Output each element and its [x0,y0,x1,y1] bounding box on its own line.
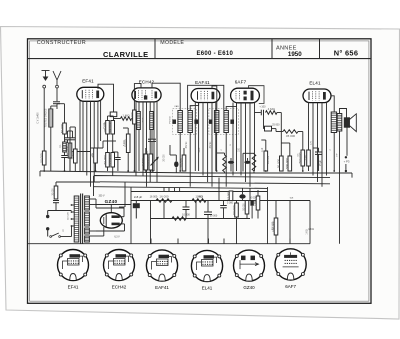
resistor 50000 [103,153,109,168]
wire [69,158,71,172]
wire EF41 pin to ground bus [82,101,84,172]
svg-text:170: 170 [304,155,308,160]
wire stub [289,239,291,244]
capacitor decoupling [115,158,121,160]
resistor 20000 osc [146,154,152,170]
wire [127,128,129,134]
wire antenna coil to ground bus [50,127,52,171]
wire ECH42 grid top cap [134,84,141,110]
capacitor cathode bypass [315,152,322,154]
mains plug pin 2 [46,227,49,236]
svg-text:1 MΩ: 1 MΩ [197,195,203,198]
speaker [344,114,356,132]
wire EF41 pin heater [93,101,95,182]
wire [276,131,283,133]
trimmer arrow oscillator [151,157,159,166]
svg-text:25 µF: 25 µF [320,159,322,166]
wire [257,190,259,196]
wire [96,147,104,149]
wire OT primary return [333,133,335,172]
header bottom rule [28,58,372,60]
wire EL41 pin [321,103,323,187]
svg-text:CONSTRUCTEUR: CONSTRUCTEUR [37,40,86,46]
capacitor IFT1 trimmer left [172,120,176,124]
wire IFT1 secondary return [189,133,191,187]
tube ECH42 internal electrodes [136,90,158,99]
resistor 100000 avc [264,151,268,171]
resistor 50000 det [277,156,283,171]
wire heater bus 1 [94,176,331,197]
wire ECH42 pin heater [142,102,144,176]
wire heater stub 4 [179,188,181,192]
tube EAF41 internal electrodes [198,91,215,100]
wire [218,178,220,201]
wire EL41 pin extra [326,102,328,175]
wire [96,207,124,209]
capacitor 50000 [204,212,212,215]
svg-text:472 kc: 472 kc [210,141,212,149]
svg-text:CLARVILLE: CLARVILLE [103,50,149,59]
wire EL41 pin grid [308,102,310,150]
wire [223,201,225,206]
svg-text:47 000: 47 000 [226,191,230,201]
wire [133,124,135,171]
wire [298,131,303,133]
wire tap [72,218,75,220]
wire [123,127,128,129]
wire heater to rectifier area [124,182,126,207]
wire [236,201,238,204]
wire elbow [243,152,254,154]
wire secondary tap [90,198,96,200]
wire GZ40 cathode [110,205,112,213]
wire [230,158,232,161]
junction ground bus [127,170,129,172]
tube EAF41 envelope [191,89,220,103]
wire [183,148,185,155]
wire [112,134,114,141]
wire EF41 pin [90,101,92,186]
capacitor oscillator padder [148,139,156,141]
svg-text:1 KΩ: 1 KΩ [255,200,257,205]
tube EF41 internal electrodes [82,90,99,99]
wire 6AF7 pin [236,103,238,171]
header separator constructeur/modele [154,39,156,59]
svg-text:50 000: 50 000 [244,203,246,211]
svg-text:EL41: EL41 [309,80,321,85]
junction test point [345,156,347,158]
svg-text:EAF41: EAF41 [195,80,210,85]
wire bottom chassis line [28,243,310,245]
wire [107,116,109,121]
capacitor padding 2 [70,138,76,140]
wire [107,141,109,153]
svg-text:300 000: 300 000 [108,122,112,133]
wire tap [72,204,75,206]
svg-text:16 000: 16 000 [150,196,158,199]
wire ECH42 pin extra [156,101,158,182]
svg-text:1 KΩ: 1 KΩ [306,229,308,234]
svg-text:4 MΩ: 4 MΩ [268,107,276,111]
svg-text:350 V: 350 V [98,196,104,198]
wire HT rail left [96,204,131,206]
junction ground bus [179,170,181,172]
coil IFT2 secondary [224,111,229,133]
capacitor detector [261,110,263,116]
wire [242,188,244,194]
wire bus end hook [351,173,353,178]
wire [64,104,66,123]
wire 6AF7 return [254,113,256,172]
coil IFT1 primary [178,111,183,133]
wire ECH42 pin extra [135,102,137,176]
resistor 500000 grid EL41 [298,150,304,166]
wire [170,154,176,156]
capacitor IFT2 trimmer left [209,120,213,124]
wire [64,152,66,156]
wire [124,224,126,231]
wire [64,134,66,142]
junction ground bus [333,170,335,172]
coil IFT2 primary [214,111,219,133]
wire to tuning section [57,103,65,105]
IF transformer 2 enclosure [209,109,238,135]
svg-text:50 000: 50 000 [232,205,236,215]
wire GZ40 filament [103,227,105,236]
wire switch to primary [61,236,72,238]
wire secondary tap [90,235,96,237]
wire elbow [217,152,225,154]
coil transformer secondary HT [85,196,90,210]
coil oscillator grid [137,112,141,130]
wire [309,201,311,226]
resistor 100000 [103,121,109,135]
wire elbow [90,147,103,149]
wire [313,147,319,149]
wire [145,170,147,173]
wire OT to PSU [339,131,341,244]
tube socket base diagram EF41 [58,250,89,281]
wire [207,201,209,213]
wire EF41 pin to cathode resistor [97,101,99,149]
resistor 300 cathode [91,148,97,163]
svg-text:E600 - E610: E600 - E610 [196,51,233,57]
resistor 4 Mohm [266,107,278,114]
tube socket base diagram ECH42 [104,250,135,281]
tube socket base diagram GZ40 [234,250,265,281]
svg-text:6AF7: 6AF7 [285,284,296,289]
coil output transformer secondary [337,114,342,132]
tube GZ40 internal anodes [104,215,120,227]
wire output rail down [289,201,291,244]
tube socket base diagram EL41 [191,250,222,281]
wire 6AF7 pin [249,103,251,187]
svg-text:C.V. 2x490: C.V. 2x490 [38,112,40,124]
capacitor padding 1 [65,138,71,140]
wire [96,230,125,232]
wire [224,172,226,173]
capacitor mains [53,201,59,203]
header separator modele/annee [271,39,273,59]
wire [67,131,69,138]
resistor 1K vertical zigzag [252,154,256,171]
wire [114,118,121,120]
resistor tone [172,217,186,221]
resistor 1 Mohm AVC [121,114,132,121]
wire junction bar [103,140,116,142]
wire [275,129,277,132]
wire [253,152,255,155]
wire EAF41 shield [188,85,224,110]
wire ECH42 pin [149,102,151,182]
wire [263,113,265,129]
wire [113,151,118,153]
junction ground bus [216,170,218,172]
wire [150,201,152,244]
wire [108,115,114,117]
wire [277,112,281,114]
svg-text:16 000: 16 000 [159,195,169,199]
coil secondary winding [63,142,67,152]
coil oscillator plate [150,112,154,130]
wire [257,210,259,219]
wire [74,127,76,149]
wire [55,182,57,186]
wire [185,201,187,208]
wire [132,118,135,120]
junction ground bus [43,170,45,172]
wire heater link left [56,181,100,183]
svg-text:50 000: 50 000 [210,215,218,218]
wire 6AF7 pin [245,103,247,182]
wire 6AF7 pin heater [240,103,242,176]
svg-text:50 000: 50 000 [277,159,281,169]
resistor 300000 [108,121,114,135]
wire [150,170,152,173]
resistor 500000 [285,156,291,171]
resistor 47000 [226,191,232,201]
wire [56,104,58,109]
transformer core [81,194,83,245]
wire [281,142,290,144]
wire [236,217,238,244]
schematic border frame inner [30,41,369,301]
wire mains feed [48,210,72,212]
capacitor 100 coupling box [110,112,117,117]
wire main ground bus [40,171,352,173]
wire heater bus 2 [100,182,330,184]
svg-text:+ P3: + P3 [344,160,350,164]
wire [107,134,109,141]
svg-text:EF41: EF41 [82,79,94,84]
coil output transformer primary [331,112,336,133]
wire GZ40 anode 1 [120,216,124,218]
wire 6AF7 grid feed [254,102,256,112]
resistor 40000 [65,143,71,158]
svg-text:2 000: 2 000 [71,152,75,160]
svg-text:N° 656: N° 656 [334,48,358,57]
wire [275,235,277,244]
junction ground bus [302,170,304,172]
svg-text:+ 100: + 100 [259,106,266,109]
capacitor IFT2 trimmer right [230,120,234,124]
wire [230,164,232,172]
wire [117,152,119,158]
svg-text:CAD: CAD [174,105,179,108]
svg-text:1 KΩ: 1 KΩ [308,228,314,231]
wire EF41 pin extra [100,101,102,141]
svg-text:20 000: 20 000 [146,157,150,167]
wire IFT2 secondary return [225,133,227,187]
svg-text:50 000: 50 000 [40,153,44,163]
resistor 50000 volume [40,151,46,165]
svg-text:6AF7: 6AF7 [235,80,247,85]
capacitor trimmer oscillator [174,161,178,167]
wire [318,148,320,152]
capacitor antenna series [53,102,60,104]
resistor 50000 screen [232,203,238,217]
wire [74,163,76,171]
wire [102,141,104,148]
wire [55,203,57,211]
svg-text:1950: 1950 [288,51,302,58]
svg-text:AVC: AVC [198,147,201,152]
resistor 25000 [108,153,114,168]
capacitor to ground [61,156,68,158]
coil IFT1 secondary [188,111,193,133]
capacitor electrolytic cathode [239,194,245,198]
wire [127,153,129,172]
wire [247,158,249,161]
tube 6AF7 internal electrodes [236,91,254,101]
wire [175,167,177,173]
svg-text:EF41: EF41 [68,285,79,290]
wire [264,128,265,130]
capacitor screen [250,201,253,206]
junction primary tap 1 [71,204,73,206]
tube EF41 envelope [77,87,104,101]
wire [112,141,114,153]
resistor 500000 tone [271,218,277,235]
wire [70,126,75,128]
svg-text:MODELE: MODELE [160,40,184,46]
svg-text:500 000: 500 000 [285,158,289,169]
wire [280,113,282,132]
wire [67,140,69,143]
wire [302,166,304,171]
wire [72,131,74,138]
resistor mains dropper [54,186,58,199]
resistor 50000 [245,201,249,215]
junction on ground bus [345,170,347,172]
svg-text:30 000: 30 000 [53,188,55,196]
wire [308,166,310,171]
wire [318,154,320,171]
wire [117,160,119,172]
svg-text:ECH42: ECH42 [112,285,127,290]
capacitor oval 2 [244,161,250,164]
junction primary tap 4 [71,225,73,227]
antenna terminal post [56,85,59,88]
wire 6AF7 pin extra [232,103,234,176]
wire bus left hook [39,171,41,176]
coil transformer secondary dial [85,236,90,242]
wire ground lead down to bus [43,88,45,171]
wire [345,164,347,170]
svg-text:PO GO: PO GO [169,116,171,123]
junction primary tap 2 [71,211,73,213]
resistor 50000 detector load vertical zigzag [223,155,227,172]
wire heater stub 3 [174,188,176,192]
svg-text:50 000: 50 000 [103,155,107,165]
wire [51,105,57,107]
wire B+ rail [131,201,310,205]
svg-text:GZ40: GZ40 [105,199,118,204]
wire [119,206,125,208]
wire [289,143,291,156]
wire [96,235,104,237]
wire stub [177,239,179,244]
wire [275,201,277,219]
wire [253,171,255,173]
wire heater stub 2 [168,188,170,192]
svg-text:HP: HP [337,153,339,157]
resistor 5000 [124,134,130,153]
wire [255,112,261,114]
wire [302,132,304,151]
coil transformer primary [74,196,79,242]
wire EL41 pin [317,103,319,182]
wire EF41 plate to coupling [98,84,114,112]
resistor 170 cathode EL41 [304,150,310,166]
ground terminal post [43,85,46,88]
wire [123,208,125,217]
svg-text:TOUTES ONDES: TOUTES ONDES [45,108,48,127]
svg-text:1 nF: 1 nF [262,147,264,152]
wire PSU box left [130,187,132,244]
wire [169,145,171,155]
wire ECH42 pin [146,102,148,187]
wire ECH42 pin [153,102,155,172]
svg-text:100 000: 100 000 [268,155,270,164]
wire [50,106,52,109]
coil transformer secondary [85,212,90,226]
wire EAF41 pin extra [215,102,217,171]
header separator annee/numero [319,39,321,59]
wire EAF41 pin extra [194,102,196,171]
wire [223,208,225,219]
resistor 1 Kohm [253,196,259,210]
coil antenna primary winding [49,109,53,127]
tube 6AF7 envelope [231,88,260,103]
schematic border frame outer [28,39,372,304]
resistor 16000 filter [156,195,172,203]
wire ECH42 plate to IF transformer [152,83,180,110]
tube ECH42 envelope [132,88,161,102]
antenna symbol [53,71,61,85]
svg-text:2x8 µF: 2x8 µF [134,195,143,199]
wire [280,132,282,157]
junction ground bus [64,170,66,172]
capacitor 5000 [220,206,227,208]
wire [261,139,266,141]
wire EAF41 pin heater [202,102,204,175]
wire HT centre tap [90,204,96,206]
wire [71,226,73,237]
resistor 5000 osc [141,154,147,170]
wire stub [208,239,210,244]
wire EF41 pin extra [79,101,81,171]
